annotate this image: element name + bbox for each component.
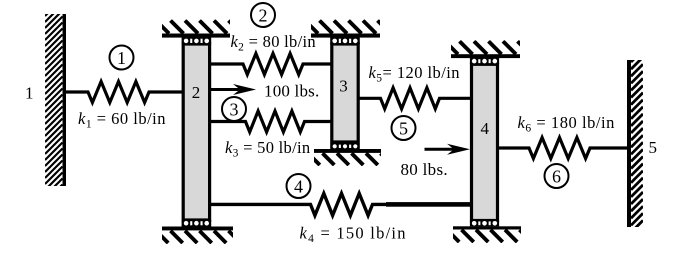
- svg-text:2: 2: [192, 83, 201, 102]
- svg-text:k6 = 180 lb/in: k6 = 180 lb/in: [518, 113, 615, 135]
- svg-text:4: 4: [294, 176, 303, 196]
- svg-text:k5= 120 lb/in: k5= 120 lb/in: [369, 63, 461, 85]
- svg-text:6: 6: [552, 166, 561, 186]
- svg-text:5: 5: [399, 118, 408, 138]
- svg-text:3: 3: [230, 99, 239, 119]
- svg-text:3: 3: [339, 77, 348, 96]
- svg-text:k2 = 80 lb/in: k2 = 80 lb/in: [231, 32, 316, 54]
- svg-text:80 lbs.: 80 lbs.: [401, 160, 448, 179]
- svg-text:100 lbs.: 100 lbs.: [264, 81, 319, 100]
- svg-text:k4 = 150 lb/in: k4 = 150 lb/in: [300, 223, 407, 245]
- svg-text:1: 1: [25, 83, 34, 102]
- svg-text:4: 4: [481, 119, 490, 138]
- svg-text:1: 1: [117, 48, 126, 68]
- svg-text:k1 = 60 lb/in: k1 = 60 lb/in: [78, 109, 166, 131]
- svg-text:k3 = 50 lb/in: k3 = 50 lb/in: [225, 138, 310, 160]
- svg-text:5: 5: [649, 138, 658, 157]
- svg-text:2: 2: [259, 5, 268, 25]
